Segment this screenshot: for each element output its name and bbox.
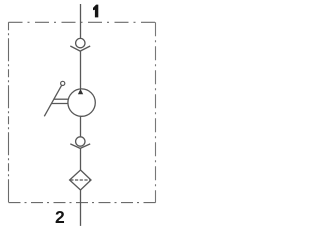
wire: port 2 stub (bottom) (80, 190, 82, 226)
check valve V2 (bottom): ball (76, 137, 85, 146)
filter F1: diamond (70, 170, 91, 190)
wire: pump to V2 (80, 116, 82, 137)
wire: V1 to pump (80, 51, 82, 89)
enclosure top edge (dash-dot) (9, 21, 156, 23)
check valve V1 (top): ball (76, 38, 85, 47)
svg-text:2: 2 (55, 207, 65, 227)
enclosure bottom edge (dash-dot) (9, 202, 156, 204)
hand pump U1: lever link upper bar (54, 98, 68, 100)
enclosure left edge (dash-dot) (8, 22, 10, 202)
hand pump U1: lever knob (61, 81, 65, 85)
check valve V1 (top): seat (70, 46, 90, 51)
hand pump U1: lever link lower bar (52, 103, 68, 105)
check valve V2 (bottom): seat (70, 144, 90, 149)
wire: V2 to filter (80, 148, 82, 170)
hand pump U1: lever arm (44, 85, 61, 116)
wire: port 1 stub (top) (80, 4, 82, 38)
enclosure right edge (dash-dot) (155, 22, 157, 202)
hand pump U1: body circle (68, 89, 95, 116)
port label 1 (93, 5, 98, 18)
hand pump U1: flow triangle (up) (78, 89, 83, 94)
filter F1: element (dashed) (70, 179, 90, 181)
